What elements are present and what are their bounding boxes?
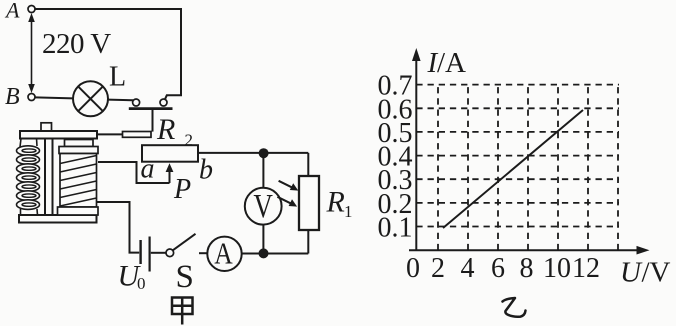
svg-text:A: A — [4, 0, 20, 23]
svg-text:R: R — [156, 113, 175, 146]
svg-text:12: 12 — [572, 253, 600, 284]
svg-text:V: V — [253, 188, 273, 225]
svg-text:8: 8 — [520, 253, 534, 284]
svg-text:S: S — [176, 259, 194, 295]
svg-text:P: P — [173, 174, 191, 205]
svg-text:220 V: 220 V — [42, 28, 111, 60]
svg-text:0: 0 — [406, 253, 420, 284]
svg-text:L: L — [109, 62, 126, 93]
svg-text:0.1: 0.1 — [378, 213, 413, 244]
svg-text:10: 10 — [543, 253, 571, 284]
svg-text:A: A — [214, 235, 233, 270]
svg-text:U: U — [620, 257, 643, 289]
svg-text:b: b — [199, 155, 213, 186]
svg-text:2: 2 — [185, 131, 194, 150]
svg-text:R: R — [326, 186, 345, 219]
svg-text:B: B — [5, 84, 20, 110]
svg-text:2: 2 — [431, 253, 445, 284]
svg-text:4: 4 — [461, 253, 475, 284]
svg-text:/A: /A — [437, 47, 466, 79]
svg-text:0: 0 — [137, 274, 146, 293]
svg-text:6: 6 — [491, 253, 505, 284]
svg-text:/V: /V — [642, 257, 671, 289]
svg-text:1: 1 — [344, 202, 353, 221]
svg-text:a: a — [141, 154, 155, 185]
